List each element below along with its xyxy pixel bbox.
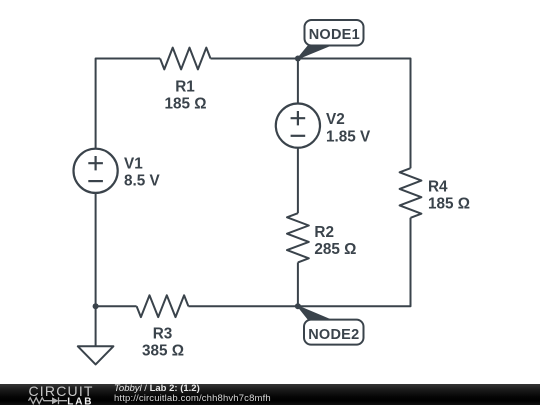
resistor R4 [400,168,422,218]
svg-text:V1: V1 [124,156,143,173]
voltage source V2 [276,104,320,148]
svg-text:R2: R2 [314,224,334,241]
NODE1 callout pointer [298,45,332,59]
svg-text:V2: V2 [326,111,345,128]
svg-text:R4: R4 [428,179,448,196]
CircuitLab logo [0,382,100,405]
wire left vertical (V1 bottom to ground node) [95,193,97,306]
svg-text:NODE1: NODE1 [309,27,360,43]
svg-text:185 Ω: 185 Ω [164,96,206,113]
wire top-middle (R1 right to node1) [211,58,298,60]
resistor R1 [160,48,210,70]
wire top-right (node1 to top-right corner down to R4 top) [298,59,411,169]
wire bottom-right (R4 bottom to corner and left to node2) [298,218,411,306]
svg-text:8.5 V: 8.5 V [124,173,161,190]
footer title and url text [114,384,271,403]
svg-text:LAB: LAB [67,396,93,405]
node junction dot ground-left [93,303,99,309]
footer bar [0,384,540,405]
svg-text:385 Ω: 385 Ω [142,343,184,360]
voltage source V1 [74,149,118,193]
wire ground stem [95,306,97,346]
NODE2 callout box [304,320,364,345]
svg-text:NODE2: NODE2 [308,327,359,343]
svg-text:285 Ω: 285 Ω [314,241,356,258]
NODE2 callout pointer [298,306,332,320]
svg-text:R1: R1 [175,79,195,96]
NODE1 callout box [305,20,364,46]
wire bottom-left (ground node to R3 left) [96,305,137,307]
wire bottom-middle (R3 right to node2) [188,305,298,307]
wire top-left corner (R1 left across corner down to V1 top) [96,59,161,149]
node junction dot NODE2 [295,303,301,309]
wire R2 bottom to node2 [297,262,299,306]
resistor R3 [137,295,189,317]
svg-text:185 Ω: 185 Ω [428,196,470,213]
ground symbol [78,346,114,364]
svg-text:1.85 V: 1.85 V [326,129,371,146]
wire V2 branch (node1 down to V2 top) [297,59,299,104]
svg-text:R3: R3 [153,326,173,343]
wire V2 bottom to R2 top [297,148,299,214]
resistor R2 [287,213,309,262]
node junction dot NODE1 [295,56,301,62]
